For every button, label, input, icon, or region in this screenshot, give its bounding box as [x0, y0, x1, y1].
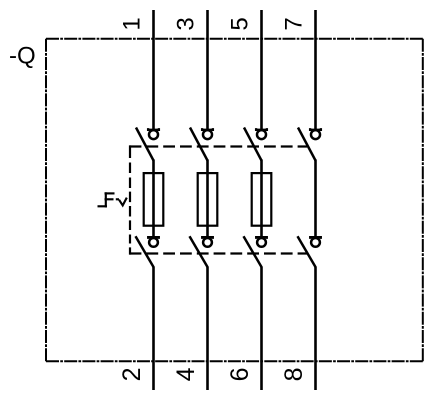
- svg-text:6: 6: [226, 367, 254, 381]
- switch blade top pole 2: [190, 128, 208, 161]
- svg-text:7: 7: [281, 17, 308, 30]
- switch blade top pole 3: [244, 128, 262, 161]
- thermal overload box left dashed edge: [129, 145, 131, 254]
- fixed contact circle bottom pole 3: [257, 238, 266, 247]
- wire mid pole 1: [152, 160, 155, 237]
- fixed contact bar top pole 3: [256, 128, 267, 130]
- thermal overload box top dashed edge: [130, 145, 307, 147]
- fixed contact bar top pole 4: [310, 128, 321, 130]
- svg-text:2: 2: [118, 367, 146, 381]
- fixed contact circle top pole 2: [203, 130, 212, 139]
- fixed contact bar bottom pole 3: [256, 237, 267, 239]
- switch blade bottom pole 1: [136, 236, 154, 267]
- thermal overload box bottom dashed edge: [130, 252, 307, 254]
- wire top lead pole 4: [314, 10, 317, 130]
- fixed contact bar top pole 1: [148, 128, 159, 130]
- enclosure boundary bottom edge (dash-dot): [46, 360, 423, 362]
- wire bottom lead pole 1: [152, 267, 155, 391]
- fixed contact circle bottom pole 2: [203, 238, 212, 247]
- thermal element pole 2: [198, 173, 218, 226]
- thermal release label F: [98, 192, 127, 207]
- fixed contact circle top pole 3: [257, 130, 266, 139]
- fixed contact bar bottom pole 1: [148, 237, 159, 239]
- svg-text:8: 8: [280, 367, 308, 381]
- switch blade top pole 4: [298, 128, 316, 161]
- fixed contact bar top pole 2: [202, 128, 213, 130]
- switch blade bottom pole 3: [244, 236, 262, 267]
- wire top lead pole 2: [206, 10, 209, 130]
- enclosure boundary left edge (dash-dot): [45, 39, 47, 362]
- thermal element pole 1: [144, 173, 164, 226]
- wire mid pole 3: [260, 160, 263, 237]
- wire mid pole 4: [314, 160, 317, 237]
- fixed contact circle top pole 1: [149, 130, 158, 139]
- wire mid pole 2: [206, 160, 209, 237]
- fixed contact bar bottom pole 4: [310, 237, 321, 239]
- enclosure boundary top edge (dash-dot): [46, 38, 423, 40]
- thermal element pole 3: [252, 173, 272, 226]
- enclosure boundary right edge (dash-dot): [422, 39, 424, 362]
- wire top lead pole 1: [152, 10, 155, 130]
- wire bottom lead pole 4: [314, 267, 317, 391]
- fixed contact circle top pole 4: [311, 130, 320, 139]
- svg-text:-Q: -Q: [9, 43, 36, 70]
- switch blade bottom pole 2: [190, 236, 208, 267]
- wire bottom lead pole 3: [260, 267, 263, 391]
- fixed contact bar bottom pole 2: [202, 237, 213, 239]
- wire top lead pole 3: [260, 10, 263, 130]
- svg-text:5: 5: [227, 17, 254, 30]
- fixed contact circle bottom pole 1: [149, 238, 158, 247]
- wire bottom lead pole 2: [206, 267, 209, 391]
- switch blade top pole 1: [136, 128, 154, 161]
- fixed contact circle bottom pole 4: [311, 238, 320, 247]
- svg-text:1: 1: [119, 17, 146, 30]
- svg-text:4: 4: [172, 367, 200, 381]
- svg-text:3: 3: [173, 17, 200, 30]
- switch blade bottom pole 4: [298, 236, 316, 267]
